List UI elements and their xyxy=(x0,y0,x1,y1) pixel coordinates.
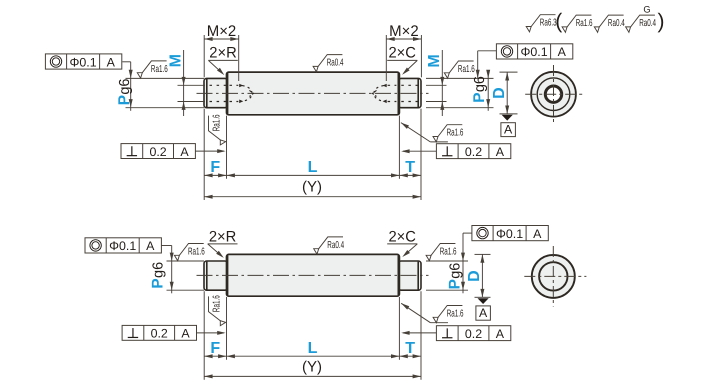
svg-text:Φ0.1: Φ0.1 xyxy=(521,45,548,59)
F dimension line xyxy=(204,174,226,176)
end view vertical centerline xyxy=(553,65,555,123)
lower body left end face line xyxy=(227,255,229,295)
surface finish Ra1.6 right shoulder symbol xyxy=(433,125,464,142)
T lower arrowhead left xyxy=(399,354,407,358)
svg-text:A: A xyxy=(558,45,567,59)
M×2 right arrowhead left xyxy=(386,37,394,41)
svg-text:T: T xyxy=(405,340,415,357)
svg-text:Ra1.6: Ra1.6 xyxy=(211,114,222,131)
hidden thread line right upper xyxy=(388,84,397,86)
lower shaft right stub xyxy=(398,261,421,290)
svg-text:M: M xyxy=(426,54,443,67)
svg-text:2×R: 2×R xyxy=(209,229,237,246)
svg-text:Ra1.6: Ra1.6 xyxy=(458,64,475,75)
end view horizontal centerline xyxy=(525,93,583,95)
svg-text:0.2: 0.2 xyxy=(151,327,168,341)
frame leader arrowhead top-left xyxy=(129,70,133,78)
centerline of upper shaft xyxy=(197,92,429,94)
M right arrowhead lower xyxy=(440,102,444,110)
svg-text:M×2: M×2 xyxy=(389,23,419,40)
M×2 right extension line b xyxy=(420,35,422,77)
svg-text:2×C: 2×C xyxy=(388,44,416,61)
perpendicularity leader arrowhead left xyxy=(217,149,225,153)
svg-text:Pg6: Pg6 xyxy=(150,262,167,289)
D extension line upper xyxy=(500,71,518,73)
M×2 right extension line a xyxy=(385,35,387,81)
perpendicularity frame right xyxy=(436,144,510,159)
svg-text:Pg6: Pg6 xyxy=(446,263,463,290)
M×2 left arrowhead right xyxy=(230,37,238,41)
svg-text:Ra0.4: Ra0.4 xyxy=(608,18,625,29)
hidden drill point left xyxy=(249,90,253,96)
2×R lower underline xyxy=(208,243,238,245)
svg-text:0.2: 0.2 xyxy=(465,145,482,159)
2×C lower leader arrowhead xyxy=(402,250,410,257)
svg-text:G: G xyxy=(643,5,650,15)
svg-text:M: M xyxy=(167,54,184,67)
L arrowhead right xyxy=(391,173,399,177)
svg-text:A: A xyxy=(146,239,155,253)
(Y) arrowhead right xyxy=(413,195,421,199)
hidden thread chamfer mark left lower xyxy=(239,100,243,104)
T dimension line xyxy=(399,174,421,176)
perpendicularity leader left xyxy=(195,150,223,152)
extension line stub left end xyxy=(203,109,205,200)
svg-text:Ra0.4: Ra0.4 xyxy=(327,240,344,251)
surface finish Ra0.4 on body xyxy=(313,55,344,72)
(Y) dimension line xyxy=(204,196,421,198)
note Ra1.6 symbol xyxy=(562,15,593,32)
svg-text:(Y): (Y) xyxy=(302,179,322,196)
lower shaft left stub xyxy=(204,261,228,290)
2×C right leader arrowhead xyxy=(402,68,410,75)
hidden hole bottom arc left xyxy=(242,86,252,102)
D arrowhead upper xyxy=(505,72,509,80)
datum A box xyxy=(501,123,516,137)
T arrowhead right xyxy=(413,173,421,177)
note Ra0.4 symbol xyxy=(594,15,625,32)
frame leader arrowhead top-right xyxy=(476,70,480,78)
perpendicularity leader lower-right xyxy=(403,332,436,334)
(Y) lower arrowhead left xyxy=(204,374,212,378)
T arrowhead left xyxy=(399,173,407,177)
left stub thread crest line lower xyxy=(210,101,227,103)
svg-text:D: D xyxy=(466,270,483,282)
svg-text:): ) xyxy=(658,10,665,33)
T lower arrowhead right xyxy=(413,354,421,358)
hidden drill point right xyxy=(373,90,377,96)
concentricity tolerance frame top-left xyxy=(45,54,121,69)
perpendicularity frame lower-left xyxy=(122,325,196,340)
lower end view vertical centerline xyxy=(552,246,554,307)
F lower arrowhead right xyxy=(218,354,226,358)
M right arrowhead upper xyxy=(440,77,444,85)
D extension line lower xyxy=(500,113,518,115)
upper shaft left threaded stub xyxy=(204,78,228,107)
svg-text:L: L xyxy=(308,340,318,357)
M×2 right arrowhead right xyxy=(413,37,421,41)
concentricity tolerance frame bottom-left xyxy=(85,238,161,253)
Pg6 left dimension line xyxy=(130,78,132,110)
surface finish Ra1.6 lower-left stub xyxy=(174,244,205,261)
Pg6 right arrowhead lower xyxy=(486,99,490,107)
lower datum A box xyxy=(476,306,491,320)
M right thread extension upper xyxy=(426,84,447,86)
D lower dimension line xyxy=(481,254,483,297)
Pg6 right dimension line xyxy=(487,72,489,111)
svg-text:L: L xyxy=(308,159,318,176)
(Y) lower dimension line xyxy=(204,375,421,377)
M×2 left extension line a xyxy=(203,35,205,77)
2×C right underline xyxy=(387,59,417,61)
svg-text:Ra0.4: Ra0.4 xyxy=(639,18,656,29)
lower body right end face line xyxy=(397,255,399,295)
svg-text:Ra1.6: Ra1.6 xyxy=(576,18,593,29)
extension line stub right end xyxy=(420,109,422,200)
surface finish Ra1.6 right shoulder leader xyxy=(401,123,430,142)
lower extension line stub right end xyxy=(420,291,422,380)
L arrowhead left xyxy=(227,173,235,177)
2×R lower leader arrowhead xyxy=(216,251,224,258)
F arrowhead right xyxy=(218,173,226,177)
Pg6 right extension line upper xyxy=(426,77,494,79)
surface finish Ra1.6 right stub xyxy=(444,61,475,78)
2×R left leader xyxy=(208,60,222,73)
Pg6 right extension line lower xyxy=(426,107,494,109)
svg-text:M×2: M×2 xyxy=(207,23,237,40)
D lower arrowhead lower xyxy=(480,289,484,297)
lower left stub chamfer line xyxy=(206,262,208,290)
lower extension line stub left end xyxy=(203,291,205,380)
hidden thread chamfer mark right upper xyxy=(383,84,387,88)
2×R left leader arrowhead xyxy=(217,68,224,75)
D lower extension upper xyxy=(475,253,491,255)
M right dimension line xyxy=(441,50,443,116)
D lower extension lower xyxy=(475,296,491,298)
hidden thread chamfer mark left upper xyxy=(239,84,243,88)
svg-text:Ra1.6: Ra1.6 xyxy=(440,246,457,257)
surface finish Ra1.6 lower-right stub xyxy=(426,244,457,261)
lower end view outer circle xyxy=(532,255,575,298)
svg-text:2×R: 2×R xyxy=(209,44,237,61)
M left arrowhead lower xyxy=(182,102,186,110)
F lower arrowhead left xyxy=(204,354,212,358)
svg-text:Pg6: Pg6 xyxy=(116,79,133,106)
svg-text:F: F xyxy=(210,159,220,176)
surface finish Ra1.6 lower-right shoulder symbol xyxy=(433,306,464,323)
hidden hole bottom arc right xyxy=(374,86,384,102)
body right end face line xyxy=(397,73,399,114)
right stub thread crest line lower xyxy=(401,101,418,103)
2×C lower leader xyxy=(404,244,417,255)
svg-text:Ra1.6: Ra1.6 xyxy=(151,64,168,75)
M right thread extension lower xyxy=(426,101,447,103)
Pg6 right arrowhead upper xyxy=(486,70,490,78)
datum A triangle xyxy=(502,115,513,121)
upper shaft right threaded stub xyxy=(398,78,421,107)
surface finish Ra1.6 lower-left shoulder (rotated) xyxy=(209,295,226,326)
centerline of lower shaft xyxy=(197,274,429,276)
lower right stub chamfer line xyxy=(417,262,419,290)
svg-text:A: A xyxy=(496,145,505,159)
lower extension line body right xyxy=(398,297,400,360)
Pg6 lower-right dimension line xyxy=(462,261,464,293)
right stub thread crest line upper xyxy=(401,84,418,86)
extension line body right xyxy=(398,116,400,179)
surface finish Ra1.6 lower-right shoulder leader arrowhead xyxy=(401,303,409,309)
perpendicularity frame lower-right xyxy=(436,326,510,341)
left stub chamfer line xyxy=(206,79,208,107)
frame leader top-left xyxy=(122,61,130,63)
hidden thread line right lower xyxy=(388,101,397,103)
svg-text:Ra0.4: Ra0.4 xyxy=(327,58,344,69)
body left end face line xyxy=(227,73,229,114)
extension line body left xyxy=(226,116,228,179)
M left dimension line xyxy=(183,50,185,116)
hidden thread line left lower xyxy=(230,101,239,103)
Pg6 left extension line lower xyxy=(126,107,205,109)
2×R lower leader xyxy=(208,244,222,257)
left stub thread crest line upper xyxy=(210,84,227,86)
svg-text:D: D xyxy=(491,87,508,99)
2×R left underline xyxy=(208,59,237,61)
surface finish Ra1.6 left shoulder (rotated) xyxy=(209,114,226,145)
end view counterbore circle xyxy=(537,78,570,111)
2×C right leader xyxy=(404,60,417,73)
svg-text:Ra1.6: Ra1.6 xyxy=(188,246,205,257)
Pg6 lower-right arrowhead lower xyxy=(461,282,465,290)
svg-text:0.2: 0.2 xyxy=(465,327,482,341)
frame leader bottom-left xyxy=(161,245,171,247)
svg-text:F: F xyxy=(210,340,220,357)
svg-text:T: T xyxy=(405,159,415,176)
Pg6 lower-left dimension line xyxy=(171,261,173,293)
lower end view inner circle xyxy=(539,262,567,290)
svg-text:A: A xyxy=(181,327,190,341)
perpendicularity leader arrowhead lower-left xyxy=(217,331,225,335)
perpendicularity leader right xyxy=(403,150,436,152)
F lower dimension line xyxy=(204,355,226,357)
svg-text:0.2: 0.2 xyxy=(149,145,166,159)
perpendicularity leader arrowhead right xyxy=(401,149,409,153)
Pg6 left extension line upper xyxy=(126,77,205,79)
svg-text:A: A xyxy=(479,306,488,320)
end view outer circle xyxy=(531,72,576,117)
end view tapped hole xyxy=(545,86,561,102)
svg-text:Ra1.6: Ra1.6 xyxy=(447,308,464,319)
Pg6 lower-left extension lower xyxy=(167,289,205,291)
M left thread extension upper xyxy=(178,84,206,86)
D lower arrowhead upper xyxy=(480,254,484,262)
lower extension line body left xyxy=(226,297,228,360)
concentricity tolerance frame top-right xyxy=(496,44,572,59)
hidden thread chamfer mark right lower xyxy=(383,100,387,104)
svg-text:Ra1.6: Ra1.6 xyxy=(211,295,222,312)
Pg6 lower-left extension upper xyxy=(167,260,205,262)
svg-text:A: A xyxy=(504,122,513,136)
frame leader arrowhead bottom-right xyxy=(461,253,465,261)
svg-text:Φ0.1: Φ0.1 xyxy=(109,239,136,253)
L lower arrowhead left xyxy=(227,354,235,358)
frame leader arrowhead bottom-left xyxy=(170,253,174,261)
upper shaft body xyxy=(227,72,400,115)
lower shaft body xyxy=(227,254,400,296)
perpendicularity frame left xyxy=(121,144,195,159)
surface finish Ra1.6 lower-right shoulder leader xyxy=(401,303,430,322)
L lower arrowhead right xyxy=(391,354,399,358)
L lower dimension line xyxy=(227,355,400,357)
frame leader top-right xyxy=(478,50,497,52)
svg-text:Φ0.1: Φ0.1 xyxy=(496,227,523,241)
lower end view horizontal centerline xyxy=(524,275,586,277)
M left arrowhead upper xyxy=(182,77,186,85)
svg-text:2×C: 2×C xyxy=(388,229,416,246)
F arrowhead left xyxy=(204,173,212,177)
svg-text:A: A xyxy=(496,327,505,341)
perpendicularity leader arrowhead lower-right xyxy=(401,331,409,335)
M left thread extension lower xyxy=(178,101,206,103)
2×C lower underline xyxy=(387,243,417,245)
Pg6 lower-right extension lower xyxy=(426,289,468,291)
right stub chamfer line xyxy=(417,79,419,107)
svg-text:A: A xyxy=(107,55,116,69)
general note Ra6.3 symbol xyxy=(526,15,557,32)
(Y) lower arrowhead right xyxy=(413,374,421,378)
frame leader bottom-right xyxy=(463,232,472,234)
svg-text:Pg6: Pg6 xyxy=(471,76,488,103)
M×2 left extension line b xyxy=(238,35,240,81)
svg-text:A: A xyxy=(180,145,189,159)
Pg6 left arrowhead lower xyxy=(129,99,133,107)
Pg6 lower-right extension upper xyxy=(426,260,468,262)
svg-text:Φ0.1: Φ0.1 xyxy=(70,55,97,69)
hidden thread line left upper xyxy=(230,84,239,86)
svg-text:A: A xyxy=(533,227,542,241)
D dimension line xyxy=(506,72,508,114)
D arrowhead lower xyxy=(505,106,509,114)
(Y) arrowhead left xyxy=(204,195,212,199)
M×2 left dimension line xyxy=(204,38,239,40)
note Ra0.4-G symbol xyxy=(626,5,657,33)
concentricity tolerance frame bottom-right xyxy=(472,226,548,241)
lower datum A triangle xyxy=(478,298,489,304)
L dimension line xyxy=(227,174,400,176)
svg-text:(: ( xyxy=(555,10,562,33)
Pg6 lower-left arrowhead lower xyxy=(170,282,174,290)
surface finish Ra0.4 on lower body xyxy=(314,237,345,254)
M×2 right dimension line xyxy=(386,38,421,40)
M×2 left arrowhead left xyxy=(204,37,212,41)
perpendicularity leader lower-left xyxy=(197,332,224,334)
surface finish Ra1.6 right shoulder leader arrowhead xyxy=(401,123,409,129)
svg-text:(Y): (Y) xyxy=(302,358,322,375)
surface finish Ra1.6 left stub xyxy=(137,61,168,78)
T lower dimension line xyxy=(399,355,421,357)
svg-text:Ra1.6: Ra1.6 xyxy=(447,128,464,139)
